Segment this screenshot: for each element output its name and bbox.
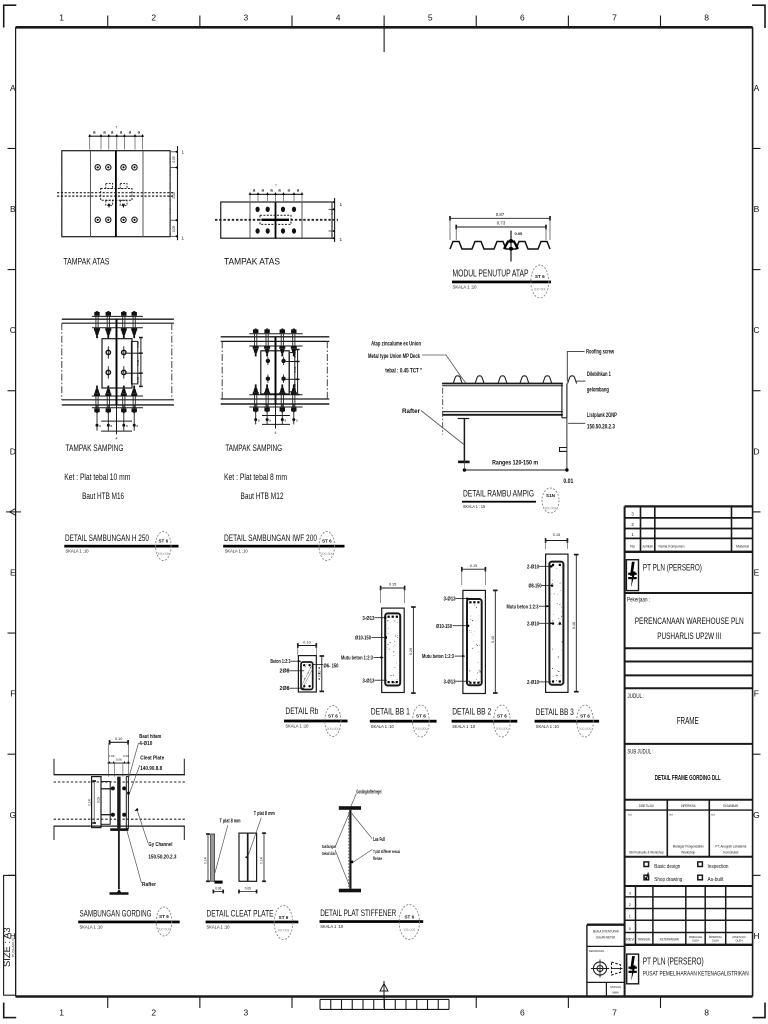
- view TAMPAK ATAS 1 - right dimension line: [177, 146, 179, 240]
- leader sambungan left V: [335, 813, 349, 847]
- view TAMPAK SAMPING 1 - lower bolt shafts and section: [96, 405, 98, 431]
- checkbox basic design: [644, 862, 649, 867]
- section BB3 - concrete speckle: [557, 658, 560, 661]
- leader roofing screw: [567, 352, 584, 382]
- view TAMPAK ATAS 2 - top dimension line: [250, 193, 302, 195]
- view CLEAT PLATE - side plate filled: [211, 834, 215, 881]
- svg-text:0.15: 0.15: [470, 564, 477, 568]
- detail bubble Rb: [325, 706, 341, 737]
- svg-text:3: 3: [629, 891, 631, 895]
- section BB2 - top dimension: [462, 568, 486, 570]
- svg-text:ttd: ttd: [628, 813, 632, 817]
- svg-text:a: a: [110, 424, 112, 428]
- svg-text:Mutu beton 1:2:3: Mutu beton 1:2:3: [507, 604, 539, 610]
- view TAMPAK SAMPING 1 - chain edges: [61, 323, 63, 400]
- svg-text:DETAIL Rb: DETAIL Rb: [285, 706, 318, 717]
- svg-text:0.09: 0.09: [245, 886, 251, 890]
- leader listplank: [568, 422, 585, 424]
- view TAMPAK SAMPING 2 - bottom bolts: [254, 411, 257, 412]
- svg-text:0.13: 0.13: [172, 192, 176, 198]
- section BB2 - concrete outline: [463, 590, 486, 693]
- svg-text:T plat 8 mm: T plat 8 mm: [254, 811, 275, 817]
- view SAMBUNGAN GORDING - connector stubs: [101, 788, 113, 790]
- svg-text:4-Ø10: 4-Ø10: [139, 741, 152, 747]
- svg-text:No: No: [630, 544, 635, 548]
- svg-text:Ranges 120-150 m: Ranges 120-150 m: [492, 460, 538, 467]
- svg-text:0.05: 0.05: [136, 376, 140, 382]
- svg-text:SATUAN: SATUAN: [610, 985, 621, 989]
- svg-text:Gording/rafter/regel: Gording/rafter/regel: [356, 790, 381, 796]
- svg-text:a: a: [126, 424, 128, 428]
- section BB2 - concrete speckle: [472, 648, 473, 649]
- view TAMPAK ATAS 1 - bolts: [95, 165, 100, 170]
- view SAMBUNGAN GORDING - leader square: [127, 792, 130, 795]
- svg-text:0.06: 0.06: [116, 757, 122, 761]
- view TAMPAK SAMPING 2 - splice plate: [261, 351, 289, 394]
- svg-text:f: f: [116, 126, 117, 130]
- svg-text:SKALA 1 :10: SKALA 1 :10: [371, 724, 394, 730]
- svg-text:SUB JUDUL :: SUB JUDUL :: [627, 750, 653, 756]
- view SAMBUNGAN GORDING - leader arrow: [135, 808, 139, 811]
- svg-text:OLEH: OLEH: [712, 939, 719, 943]
- svg-text:gelombang: gelombang: [587, 388, 609, 394]
- svg-text:XX=XX: XX=XX: [327, 727, 339, 731]
- svg-text:Pekerjaan :: Pekerjaan :: [627, 597, 650, 603]
- section BB3 - rebar dots bottom: [552, 680, 554, 682]
- stamp box - divider 2: [587, 981, 625, 983]
- view RAMBU AMPIG - listplank bracket: [566, 418, 568, 469]
- svg-text:ST 6: ST 6: [328, 714, 338, 719]
- leader rafter gording: [127, 831, 142, 883]
- svg-text:1: 1: [182, 236, 185, 241]
- view TAMPAK ATAS 1 - chain line left edge: [61, 151, 63, 237]
- view SAMBUNGAN GORDING - outer plate: [126, 777, 128, 829]
- svg-text:DETAIL RAMBU AMPIG: DETAIL RAMBU AMPIG: [463, 488, 534, 498]
- svg-text:2-Ø10: 2-Ø10: [527, 564, 539, 570]
- view CLEAT PLATE - bottom dimension left: [213, 891, 223, 893]
- section BB3 - concrete outline: [546, 554, 568, 692]
- svg-text:150.50.20.2.3: 150.50.20.2.3: [148, 855, 176, 861]
- view RAMBU AMPIG - roof deck lines: [442, 383, 563, 385]
- svg-text:MODUL PENUTUP ATAP: MODUL PENUTUP ATAP: [453, 269, 529, 280]
- svg-text:ST 6: ST 6: [404, 915, 414, 920]
- title block - component table lines: [625, 505, 753, 507]
- leader gy channel: [137, 811, 148, 844]
- section BB2 - stirrup: [467, 599, 482, 685]
- svg-text:TAMPAK SAMPING: TAMPAK SAMPING: [66, 443, 124, 453]
- view SAMBUNGAN GORDING - beam break marks: [53, 759, 55, 775]
- svg-text:Material: Material: [736, 544, 749, 548]
- svg-text:DETAIL FRAME GORDING DLL: DETAIL FRAME GORDING DLL: [655, 773, 721, 782]
- svg-text:0: 0: [629, 927, 631, 931]
- section BB1 - rebar dots bottom: [388, 681, 390, 683]
- svg-text:a: a: [296, 418, 298, 422]
- svg-text:Gelad disc: Gelad disc: [322, 851, 336, 856]
- svg-text:XX=XX: XX=XX: [278, 929, 290, 933]
- view TAMPAK ATAS 2 - plate outline: [221, 202, 332, 238]
- svg-text:Ø6- 150: Ø6- 150: [324, 663, 339, 669]
- svg-text:DALAM METER: DALAM METER: [596, 936, 616, 940]
- section BB3 - top dimension: [546, 540, 568, 542]
- svg-text:6: 6: [520, 13, 525, 23]
- view PLAT STIFFENER - top flange: [339, 806, 361, 810]
- svg-text:a: a: [136, 424, 138, 428]
- view TAMPAK ATAS 2 - hidden plate outline: [260, 215, 291, 224]
- view SAMBUNGAN GORDING - channel top line: [54, 774, 185, 776]
- view SAMBUNGAN GORDING - bolts: [111, 786, 115, 790]
- view TAMPAK ATAS 1 - center dashed lines: [57, 192, 175, 194]
- svg-text:Mutu beton 1:2:3: Mutu beton 1:2:3: [341, 655, 373, 661]
- view TAMPAK SAMPING 2 - center line below: [275, 404, 277, 429]
- svg-text:0.05: 0.05: [293, 351, 297, 357]
- svg-text:DETAIL PLAT STIFFENER: DETAIL PLAT STIFFENER: [320, 908, 396, 919]
- svg-text:SAMBUNGAN GORDING: SAMBUNGAN GORDING: [80, 908, 152, 919]
- view SAMBUNGAN GORDING - seat plate: [110, 828, 128, 831]
- svg-text:T plat 8 mm: T plat 8 mm: [220, 819, 241, 825]
- view SAMBUNGAN GORDING - channel bottom line: [54, 825, 185, 827]
- svg-text:JUDUL :: JUDUL :: [627, 694, 644, 700]
- svg-text:Nama Komponen: Nama Komponen: [659, 544, 685, 548]
- svg-text:SIZE : A3: SIZE : A3: [1, 927, 12, 967]
- svg-text:ST 6: ST 6: [279, 915, 289, 920]
- detail bubble BB3: [577, 705, 594, 737]
- view SAMBUNGAN GORDING - main plate: [117, 777, 120, 829]
- view MODUL PENUTUP ATAP - roof deck profile: [450, 242, 550, 250]
- view SAMBUNGAN GORDING - rafter foot: [110, 889, 129, 895]
- svg-text:3: 3: [244, 1008, 249, 1018]
- svg-text:XX=XX: XX=XX: [158, 928, 170, 932]
- svg-text:3-Ø13: 3-Ø13: [444, 679, 456, 685]
- svg-text:DETAIL SAMBUNGAN H 250: DETAIL SAMBUNGAN H 250: [65, 533, 149, 544]
- svg-text:1: 1: [340, 202, 343, 207]
- top ruler ticks: [107, 16, 109, 28]
- svg-text:Listplank 2GNP: Listplank 2GNP: [587, 413, 617, 419]
- svg-text:DETAIL BB 1: DETAIL BB 1: [371, 706, 410, 717]
- svg-text:XX=XX: XX=XX: [545, 507, 557, 511]
- svg-text:0.10: 0.10: [115, 737, 122, 741]
- svg-text:C: C: [10, 325, 16, 335]
- svg-text:Ø10-150: Ø10-150: [436, 624, 452, 630]
- svg-text:2: 2: [629, 903, 631, 907]
- svg-text:8: 8: [704, 13, 709, 23]
- section Rb - stirrup spacing dots: [318, 667, 320, 669]
- section Rb - concrete outline: [298, 656, 316, 692]
- view TAMPAK SAMPING 2 - lower bolt shafts and section: [255, 404, 257, 424]
- svg-text:DIPERIKSA: DIPERIKSA: [681, 804, 697, 808]
- svg-text:REV: REV: [626, 937, 635, 941]
- svg-text:SKALA 1 :10: SKALA 1 :10: [285, 724, 308, 730]
- svg-text:A: A: [754, 83, 760, 93]
- view TAMPAK ATAS 2 - chain left edge: [220, 202, 222, 238]
- view TAMPAK SAMPING 1 - bolt side symbols: [126, 352, 141, 354]
- svg-text:Beton 1:2:3: Beton 1:2:3: [270, 659, 290, 665]
- svg-text:E: E: [754, 567, 760, 577]
- sheet corner mark top-right: [764, 5, 766, 29]
- svg-text:XX=XX: XX=XX: [415, 727, 427, 731]
- svg-text:1: 1: [182, 150, 185, 155]
- svg-text:B: B: [754, 204, 760, 214]
- svg-text:S1N: S1N: [546, 493, 556, 498]
- svg-text:Shop drawing: Shop drawing: [654, 877, 682, 883]
- view CLEAT PLATE - bottom bar: [215, 881, 223, 884]
- view RAMBU AMPIG - right end box: [561, 384, 563, 418]
- svg-text:ST 6: ST 6: [322, 539, 332, 544]
- svg-text:Baut hitam: Baut hitam: [139, 734, 161, 740]
- title block - divider under PLN: [625, 592, 753, 594]
- view TAMPAK SAMPING 1 - bottom bolts: [95, 412, 98, 413]
- view TAMPAK ATAS 1 - plate outline: [62, 151, 170, 237]
- svg-text:a: a: [258, 418, 260, 422]
- left border ticks: [8, 147, 16, 149]
- svg-text:DETAIL BB 2: DETAIL BB 2: [452, 706, 491, 717]
- stamp box - projection symbol cone: [612, 962, 621, 975]
- view TAMPAK SAMPING 1 - bottom flange: [62, 399, 174, 401]
- detail bubble MODUL PENUTUP ATAP: [531, 265, 549, 298]
- svg-text:Baut HTB M12: Baut HTB M12: [241, 491, 284, 501]
- sheet corner mark top-left: [3, 5, 5, 28]
- title block - signature columns: [666, 800, 668, 857]
- section Rb - hatch: [303, 666, 312, 684]
- svg-text:0.29: 0.29: [409, 648, 413, 655]
- svg-text:Ket : Plat tebal 10 mm: Ket : Plat tebal 10 mm: [64, 472, 130, 482]
- svg-text:6: 6: [520, 1008, 525, 1018]
- detail bubble SAMBUNGAN H 250: [156, 532, 172, 561]
- leader rafter: [421, 411, 464, 445]
- svg-text:E: E: [10, 567, 16, 577]
- svg-text:XX=XX: XX=XX: [321, 552, 333, 556]
- view TAMPAK ATAS 2 - splice plate edges: [249, 202, 251, 238]
- view TAMPAK ATAS 2 - plate edge-on bar: [262, 219, 289, 221]
- detail bubble SAMBUNGAN GORDING: [156, 907, 172, 936]
- bottom ruler ticks: [107, 997, 109, 1009]
- view MODUL PENUTUP ATAP - dimension 0.87: [450, 217, 550, 219]
- view SAMBUNGAN GORDING - channel dashed lines: [54, 781, 185, 783]
- view RAMBU AMPIG - span dimension line: [464, 469, 567, 471]
- sheet corner mark bottom-left: [3, 1003, 5, 1019]
- view TAMPAK SAMPING 1 - top bolts: [95, 311, 98, 312]
- svg-text:Cleat Plate: Cleat Plate: [140, 756, 164, 762]
- svg-text:0.05: 0.05: [293, 383, 297, 389]
- view TAMPAK ATAS 1 - splice plate edges: [90, 151, 92, 237]
- title block - PLN logo box top: [626, 560, 638, 591]
- svg-text:KEDUDUKAN: KEDUDUKAN: [589, 949, 604, 953]
- svg-text:ST 6: ST 6: [535, 274, 545, 279]
- svg-text:PERENCANAAN WAREHOUSE PLN: PERENCANAAN WAREHOUSE PLN: [635, 616, 744, 626]
- svg-text:0.40: 0.40: [491, 636, 495, 643]
- view TAMPAK SAMPING 2 - top flange: [221, 336, 330, 338]
- view CLEAT PLATE - front plate: [239, 833, 257, 881]
- svg-text:G: G: [753, 810, 760, 820]
- view TAMPAK ATAS 1 - top dimension line: [90, 135, 143, 137]
- svg-text:H: H: [753, 931, 759, 941]
- svg-text:Roofing screw: Roofing screw: [586, 350, 614, 356]
- view TAMPAK SAMPING 1 - plate bolts: [106, 350, 110, 354]
- svg-text:0.06: 0.06: [215, 886, 221, 890]
- section BB3 - right dimension: [575, 555, 577, 692]
- detail bubble PLAT STIFFENER: [399, 905, 419, 940]
- view SAMBUNGAN GORDING - cleat dimension: [93, 781, 95, 823]
- section Rb - rebar dots: [303, 664, 305, 666]
- svg-text:2-Ø10: 2-Ø10: [527, 621, 539, 627]
- view TAMPAK SAMPING 2 - side plate: [289, 353, 295, 392]
- view TAMPAK SAMPING 1 - cap plate lines: [92, 315, 143, 317]
- svg-text:7: 7: [612, 1008, 617, 1018]
- section BB3 - rebar dots top: [552, 564, 554, 566]
- svg-text:a: a: [284, 418, 286, 422]
- svg-text:C: C: [753, 325, 759, 335]
- svg-text:Ø10-150: Ø10-150: [355, 635, 371, 641]
- svg-text:DETAIL SAMBUNGAN IWF 200: DETAIL SAMBUNGAN IWF 200: [224, 533, 317, 544]
- title block - revision table top: [625, 885, 753, 887]
- detail bubble BB2: [494, 705, 511, 737]
- view TAMPAK SAMPING 2 - cap plate lines: [249, 333, 302, 335]
- svg-text:ST 6: ST 6: [158, 539, 168, 544]
- svg-text:DIGAMBAR: DIGAMBAR: [723, 804, 738, 808]
- leader gording label: [351, 794, 356, 807]
- svg-text:DETAIL BB 3: DETAIL BB 3: [536, 707, 574, 718]
- svg-text:0.15: 0.15: [553, 533, 560, 537]
- svg-text:2-Ø10: 2-Ø10: [527, 680, 539, 686]
- svg-text:0.02: 0.02: [109, 754, 115, 758]
- view TAMPAK ATAS 2 - chain right edge: [331, 202, 333, 238]
- svg-text:0.14: 0.14: [203, 857, 207, 864]
- svg-text:140.90.8.8: 140.90.8.8: [140, 766, 162, 772]
- svg-text:1: 1: [629, 915, 631, 919]
- view TAMPAK ATAS 2 - right dimension line: [334, 198, 336, 242]
- svg-text:8: 8: [704, 1008, 709, 1018]
- svg-text:0.48: 0.48: [572, 622, 576, 629]
- section Rb - right dimension: [321, 656, 323, 691]
- view CLEAT PLATE - right dimension: [263, 833, 265, 881]
- detail bubble CLEAT PLATE: [274, 906, 293, 940]
- svg-text:XX=XX: XX=XX: [579, 727, 591, 731]
- svg-text:2Ø8: 2Ø8: [280, 686, 290, 692]
- svg-text:0.02: 0.02: [123, 754, 129, 758]
- svg-text:D: D: [753, 446, 759, 456]
- svg-text:PUSHARLIS UP2W III: PUSHARLIS UP2W III: [657, 631, 721, 641]
- view TAMPAK SAMPING 2 - bolt side symbols: [286, 361, 298, 363]
- detail bubble BB1: [413, 705, 430, 737]
- svg-text:Jumlah: Jumlah: [642, 544, 653, 548]
- svg-text:T plat stiffener sesuai: T plat stiffener sesuai: [373, 849, 400, 854]
- svg-text:150.50.20.2.3: 150.50.20.2.3: [587, 425, 616, 431]
- revision table rows: [625, 896, 753, 898]
- leader atap zincalume: [422, 355, 466, 383]
- view RAMBU AMPIG - extra wave bump right: [568, 376, 577, 384]
- leader baut hitam: [129, 743, 139, 778]
- svg-text:SKALA 1 : 15: SKALA 1 : 15: [463, 504, 485, 509]
- section BB3 - stirrup: [549, 562, 563, 685]
- leader t plat right: [248, 818, 261, 856]
- view TAMPAK SAMPING 2 - chain edges: [221, 341, 223, 399]
- svg-text:a: a: [269, 418, 271, 422]
- view CLEAT PLATE - bottom dimension right: [239, 891, 257, 893]
- svg-text:0.14: 0.14: [259, 857, 263, 864]
- view MODUL PENUTUP ATAP - highlighted module rib: [504, 242, 518, 250]
- svg-text:2: 2: [151, 1008, 156, 1018]
- svg-text:PT PLN (PERSERO): PT PLN (PERSERO): [643, 562, 702, 572]
- svg-text:SKALA DITENTUKAN: SKALA DITENTUKAN: [593, 929, 620, 933]
- svg-text:TAMPAK ATAS: TAMPAK ATAS: [63, 256, 109, 266]
- svg-text:TANGGAL: TANGGAL: [638, 937, 651, 941]
- svg-text:D: D: [10, 446, 16, 456]
- svg-text:Basic design: Basic design: [654, 864, 680, 870]
- svg-text:ST 6: ST 6: [416, 714, 426, 719]
- left centering arrow: [6, 511, 21, 513]
- svg-text:0.05: 0.05: [515, 231, 524, 236]
- stamp box - outline: [587, 924, 625, 926]
- svg-text:1: 1: [340, 237, 343, 242]
- checkbox inspection: [698, 862, 703, 867]
- view TAMPAK SAMPING 2 - top bolts: [254, 328, 257, 329]
- svg-text:1: 1: [59, 13, 64, 23]
- view SAMBUNGAN GORDING - rafter post: [118, 831, 120, 889]
- stamp box - divider 1: [587, 945, 625, 947]
- svg-text:KETERANGAN: KETERANGAN: [660, 937, 680, 941]
- view RAMBU AMPIG - rafter post: [463, 419, 465, 461]
- view TAMPAK SAMPING 1 - splice plate: [102, 339, 132, 388]
- view TAMPAK SAMPING 1 - center joint: [116, 319, 118, 405]
- view TAMPAK ATAS 2 - center joint line: [275, 202, 277, 238]
- svg-text:B: B: [10, 204, 16, 214]
- section BB1 - top dimension: [381, 587, 405, 589]
- svg-text:3: 3: [244, 13, 249, 23]
- view PLAT STIFFENER - weld dashes: [348, 812, 350, 887]
- title block - component table columns: [640, 506, 642, 551]
- svg-text:GM Pusharlis & Workshop: GM Pusharlis & Workshop: [629, 850, 664, 854]
- section BB1 - right dimension: [412, 607, 414, 693]
- svg-text:0.09: 0.09: [136, 359, 140, 365]
- svg-text:a: a: [99, 424, 101, 428]
- svg-text:DISETUJUI: DISETUJUI: [639, 804, 654, 808]
- svg-text:SKALA 1 :10: SKALA 1 :10: [66, 549, 89, 555]
- view TAMPAK ATAS 1 - chain line right edge: [169, 151, 171, 237]
- view TAMPAK ATAS 1 - hidden plate outline: [101, 189, 132, 201]
- svg-text:f: f: [276, 183, 277, 187]
- svg-text:Gy Channel: Gy Channel: [148, 842, 172, 848]
- svg-text:0.09: 0.09: [96, 797, 100, 803]
- title block - PLN bottom logo box: [627, 954, 639, 984]
- svg-text:A: A: [10, 83, 16, 93]
- svg-text:ttd: ttd: [669, 813, 673, 817]
- svg-text:G: G: [9, 810, 16, 820]
- svg-text:F: F: [10, 689, 15, 699]
- view TAMPAK SAMPING 2 - bottom flange: [221, 398, 330, 400]
- view TAMPAK SAMPING 2 - right dimension line: [297, 350, 299, 395]
- svg-text:SKALA 1 :10: SKALA 1 :10: [207, 925, 230, 931]
- svg-text:0.05: 0.05: [136, 341, 140, 347]
- view MODUL PENUTUP ATAP - dimension 0.73: [456, 226, 546, 228]
- leader dilebihkan: [577, 380, 586, 382]
- leader cleat plate: [130, 765, 140, 793]
- svg-text:PUSAT PEMELIHARAAN KETENAGALIS: PUSAT PEMELIHARAAN KETENAGALISTRIKAN: [643, 971, 749, 978]
- view SAMBUNGAN GORDING - sub dimensions: [107, 762, 130, 764]
- svg-text:DIPERIKSA: DIPERIKSA: [709, 935, 722, 939]
- svg-text:ST 6: ST 6: [497, 714, 507, 719]
- svg-text:0.01: 0.01: [563, 478, 573, 485]
- stamp box - projection symbol circle: [593, 962, 606, 975]
- checkbox shop drawing checked: [644, 875, 649, 880]
- view PLAT STIFFENER - stiffener mark: [351, 861, 354, 864]
- svg-text:4: 4: [116, 437, 118, 441]
- svg-text:0.09: 0.09: [293, 366, 297, 372]
- svg-text:XX=XX: XX=XX: [157, 552, 169, 556]
- svg-text:1: 1: [59, 1008, 64, 1018]
- view TAMPAK ATAS 2 - center dashed line: [215, 219, 338, 221]
- svg-text:0.05: 0.05: [172, 226, 176, 232]
- svg-text:tebal : 0.45 TCT ": tebal : 0.45 TCT ": [385, 369, 422, 375]
- svg-text:0.15: 0.15: [389, 583, 396, 587]
